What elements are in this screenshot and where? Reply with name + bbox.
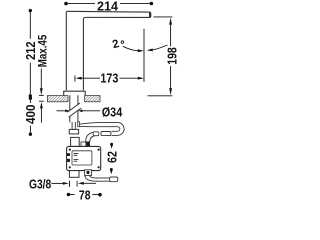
hose elbow into box top [86,132,97,142]
dark inlet square on box top [85,141,90,146]
svg-text:Max.45: Max.45 [35,35,49,68]
hose start wedge at shank [78,122,80,127]
pull-out hose loop [79,122,124,135]
svg-text:78: 78 [79,188,91,201]
pipe break symbol [67,103,81,116]
base flange [64,91,85,95]
dim 212 / 400 vertical line [23,9,38,136]
bottom hose elbow [85,175,97,181]
threaded rod [71,122,73,129]
countertop hatch left band [47,96,68,102]
dim 214 [64,0,153,14]
dim Ø34 [57,104,123,119]
connector blocks on left edge [67,153,70,156]
svg-text:Ø34: Ø34 [102,104,123,119]
svg-text:173: 173 [100,71,118,86]
outlet axis line [143,29,145,82]
spout tip end cap [149,12,151,17]
label panel on box [72,151,92,165]
svg-text:214: 214 [97,0,119,14]
dim 62 [104,143,119,175]
corner screws [69,149,71,151]
hose coupler 1 [101,132,111,136]
svg-text:400: 400 [23,105,38,125]
dim 78 [67,188,102,203]
G3/8 label [29,177,96,192]
faucet spout and column outline [66,11,151,90]
fixing nut [69,129,78,134]
hose ferrule end [110,177,118,182]
label markings [74,153,79,155]
countertop hatch right band [85,96,100,102]
svg-text:62: 62 [104,151,119,163]
bottom-left stub (G3/8 inlet) [69,171,79,178]
svg-text:198: 198 [164,47,179,65]
shank below deck [69,95,71,122]
elbow fitting [93,132,99,136]
dim 198 [148,17,180,96]
dim Max.45 [35,35,49,123]
2 degree angle annotation [111,38,167,52]
bottom-right dark square [85,170,92,176]
electronic control box [67,146,101,170]
pipe from nut to box [71,137,80,146]
dim 173 [75,71,144,86]
svg-text:G3/8: G3/8 [29,177,51,192]
bottom hose [96,177,110,179]
